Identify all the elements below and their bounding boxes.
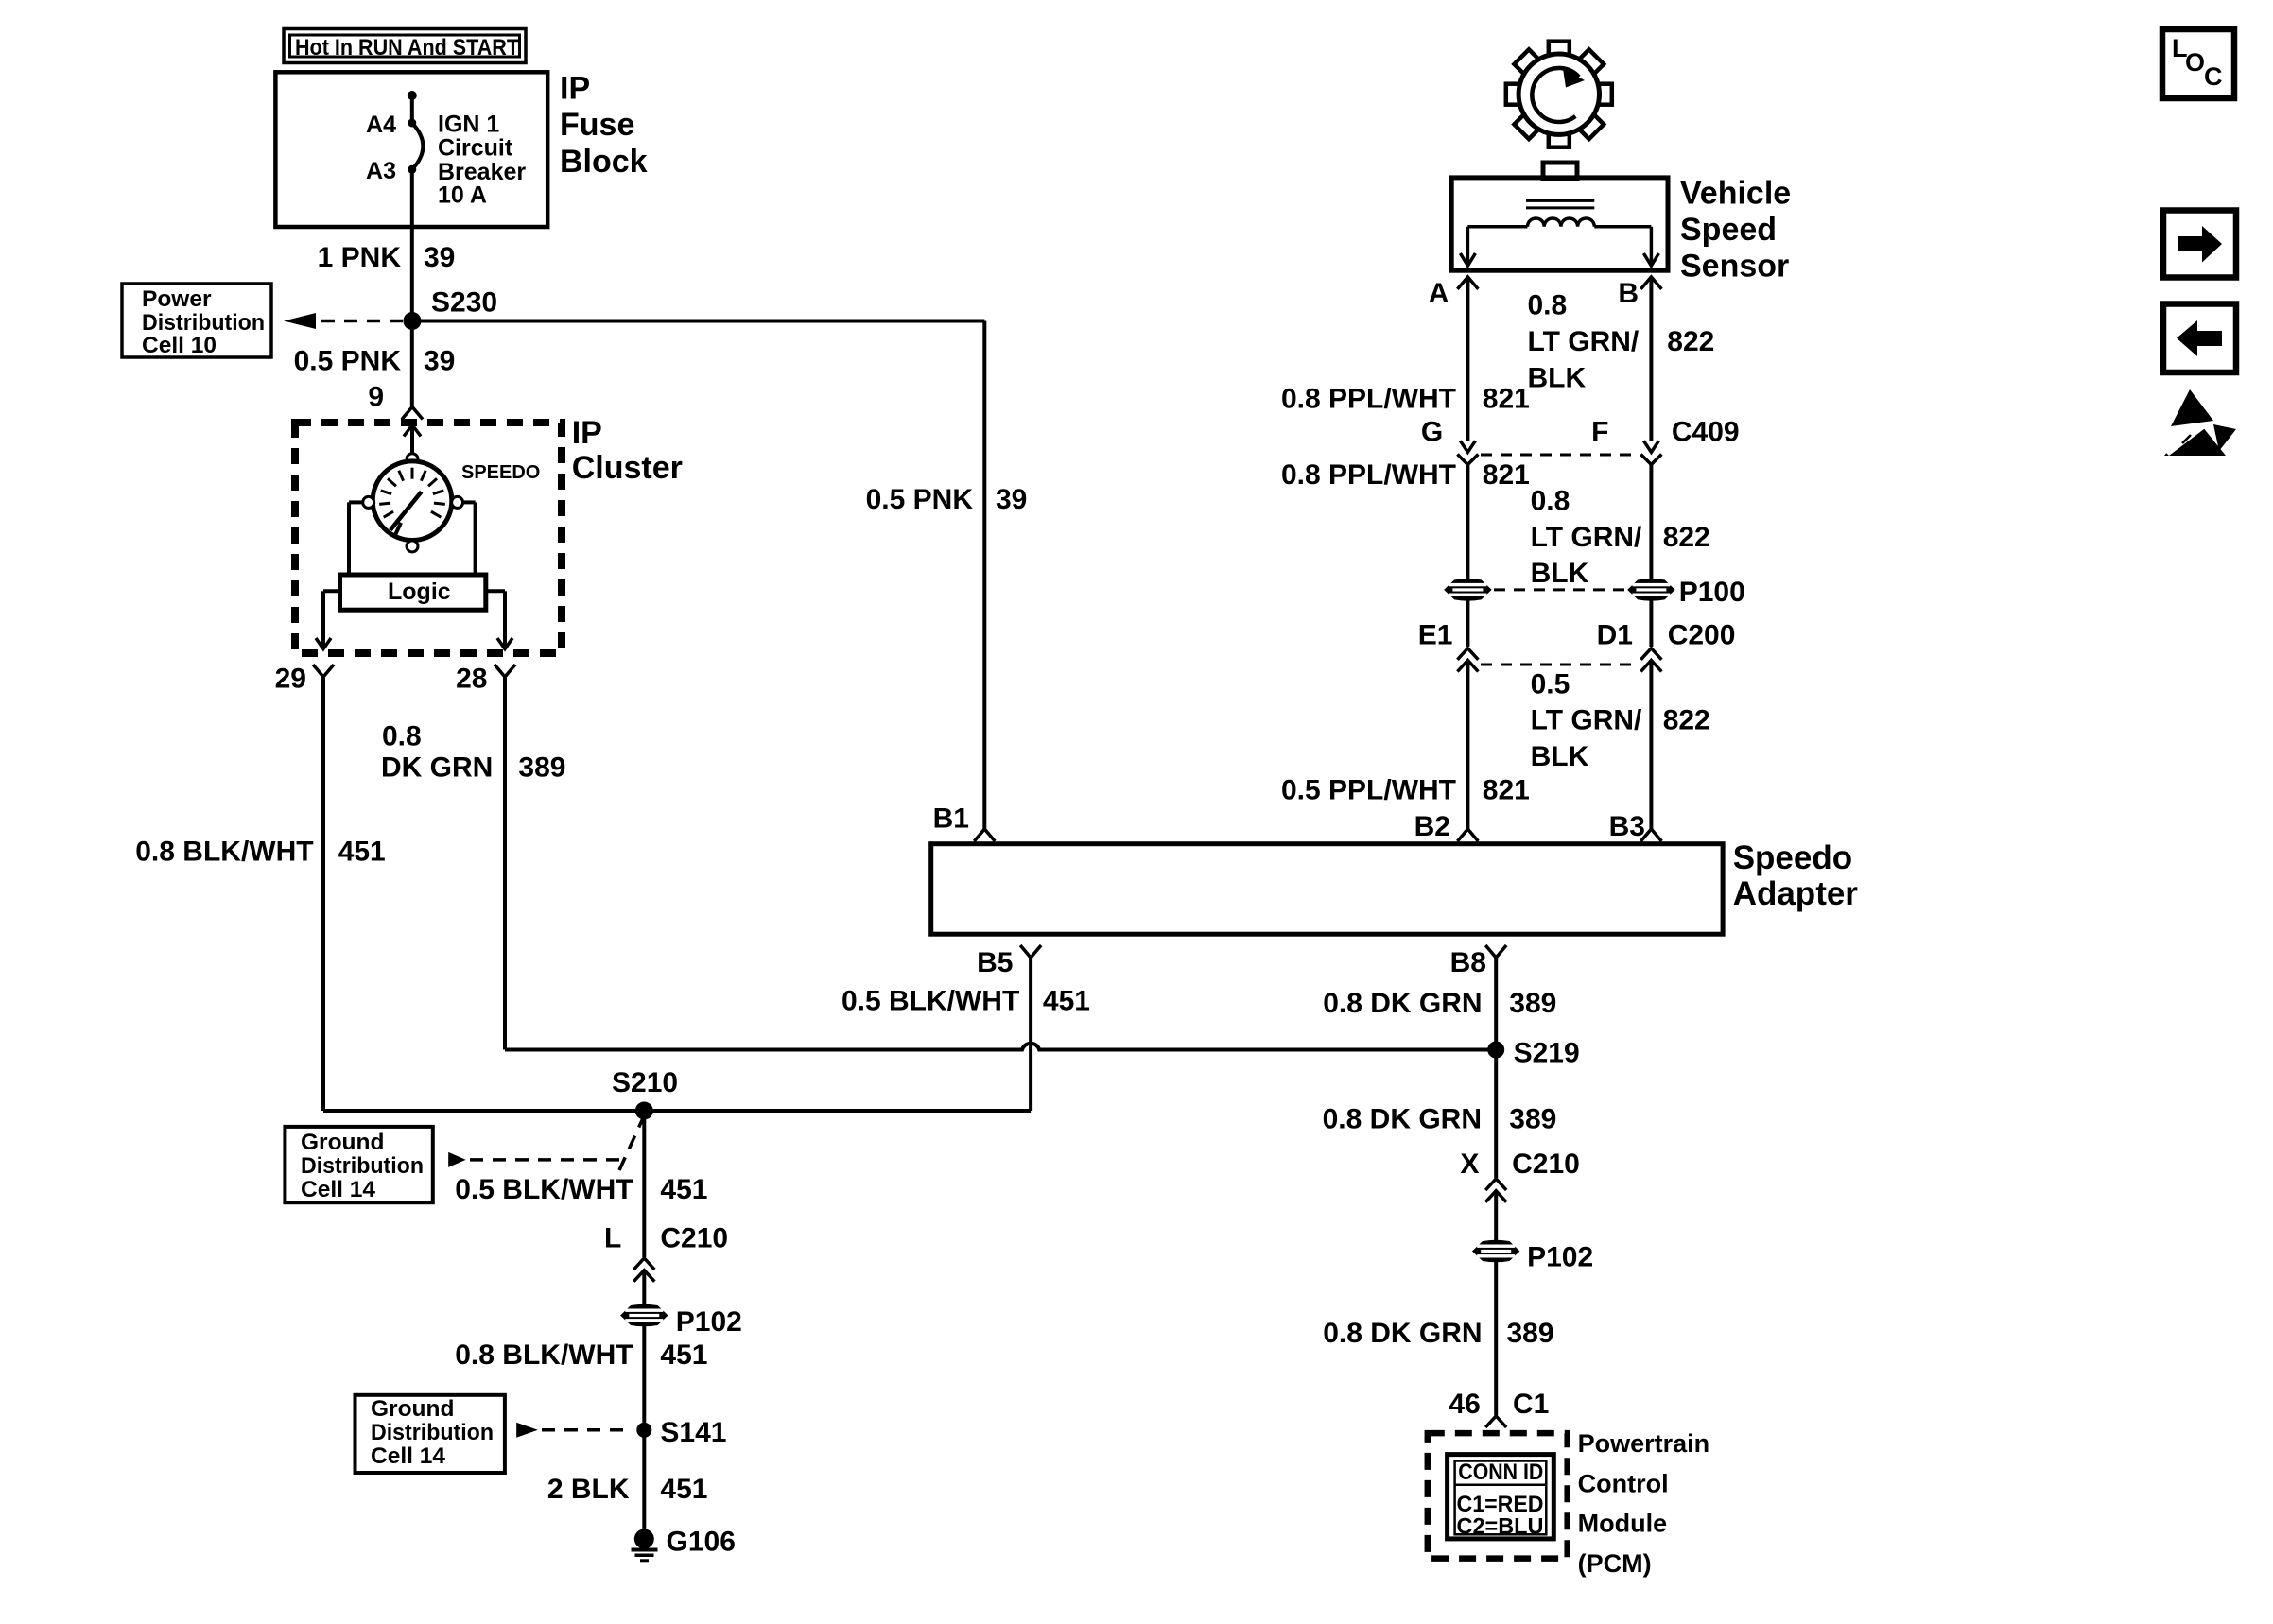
label box "Hot In RUN And START" bbox=[284, 29, 526, 63]
svg-text:Control: Control bbox=[1578, 1469, 1669, 1497]
pins 29 and 28 bbox=[313, 665, 334, 677]
svg-text:P102: P102 bbox=[1527, 1241, 1593, 1272]
svg-text:9: 9 bbox=[368, 382, 384, 413]
svg-text:Speed: Speed bbox=[1680, 212, 1777, 248]
Logic box bbox=[340, 575, 486, 610]
LOC icon bbox=[2162, 29, 2234, 98]
svg-text:0.8 DK GRN: 0.8 DK GRN bbox=[1323, 1318, 1482, 1349]
ESD warning icon bbox=[2160, 389, 2236, 456]
svg-text:BLK: BLK bbox=[1531, 741, 1589, 772]
svg-text:Distribution: Distribution bbox=[371, 1420, 494, 1445]
svg-text:B5: B5 bbox=[977, 947, 1013, 978]
gauge enclosure bbox=[349, 500, 363, 504]
svg-text:0.8 BLK/WHT: 0.8 BLK/WHT bbox=[135, 837, 313, 868]
svg-text:S141: S141 bbox=[660, 1417, 726, 1448]
svg-text:BLK: BLK bbox=[1531, 558, 1589, 589]
wire 0.8 DK GRN 389 from B8 to S219 bbox=[1494, 958, 1498, 1050]
svg-text:39: 39 bbox=[424, 242, 455, 273]
svg-text:(PCM): (PCM) bbox=[1578, 1549, 1652, 1578]
svg-text:Cell 14: Cell 14 bbox=[371, 1443, 445, 1469]
svg-text:O: O bbox=[2185, 48, 2205, 77]
svg-text:821: 821 bbox=[1483, 459, 1530, 491]
svg-text:10 A: 10 A bbox=[438, 182, 487, 209]
wire 0.5 PPL/WHT 821 (C200 to B2) bbox=[1466, 661, 1469, 830]
pin B8 bbox=[1485, 945, 1506, 958]
wire 0.5 BLK/WHT 451 from B5 to S210 bbox=[1029, 958, 1032, 1111]
svg-text:2 BLK: 2 BLK bbox=[547, 1474, 630, 1505]
svg-text:IP: IP bbox=[572, 415, 602, 451]
svg-text:0.5 PNK: 0.5 PNK bbox=[866, 484, 974, 515]
svg-text:L: L bbox=[604, 1222, 621, 1253]
svg-text:IP: IP bbox=[560, 71, 590, 107]
svg-text:SPEEDO: SPEEDO bbox=[461, 462, 540, 483]
svg-text:C210: C210 bbox=[1512, 1149, 1580, 1180]
left-arrow icon bbox=[2163, 304, 2236, 373]
splice S141 bbox=[636, 1423, 651, 1438]
cluster internal wires to pins 29 / 28 bbox=[323, 589, 340, 593]
wire 0.5 PNK 39 (S230 to speedo adapter B1) bbox=[412, 320, 984, 323]
svg-text:389: 389 bbox=[1509, 1104, 1556, 1135]
splice S210 bbox=[635, 1102, 653, 1120]
svg-text:Ground: Ground bbox=[301, 1130, 384, 1155]
svg-text:S230: S230 bbox=[431, 286, 497, 318]
svg-text:Adapter: Adapter bbox=[1733, 875, 1859, 912]
svg-text:0.8 DK GRN: 0.8 DK GRN bbox=[1323, 988, 1482, 1019]
pin B2 bbox=[1457, 829, 1478, 841]
svg-text:Fuse: Fuse bbox=[560, 107, 634, 143]
svg-text:A4: A4 bbox=[366, 112, 396, 138]
gauge side terminals bbox=[363, 496, 374, 508]
svg-text:F: F bbox=[1591, 416, 1608, 447]
VSS coil bbox=[1528, 218, 1595, 227]
svg-text:822: 822 bbox=[1667, 326, 1714, 357]
wire 0.8 BLK/WHT 451 (P102 to S141) bbox=[642, 1326, 646, 1540]
wire 1 PNK 39 from breaker to S230 bbox=[410, 169, 414, 406]
svg-text:A3: A3 bbox=[366, 158, 396, 184]
wire 0.5 LT GRN/BLK 822 (C200 to B3) bbox=[1649, 661, 1653, 830]
svg-text:0.5 BLK/WHT: 0.5 BLK/WHT bbox=[842, 986, 1019, 1017]
svg-text:BLK: BLK bbox=[1528, 363, 1587, 394]
svg-text:0.8 BLK/WHT: 0.8 BLK/WHT bbox=[455, 1339, 633, 1371]
wire 0.8 LT GRN/BLK 822 (C409 to P100) bbox=[1649, 465, 1653, 580]
splice S219 bbox=[1487, 1042, 1504, 1059]
svg-text:S219: S219 bbox=[1514, 1037, 1580, 1068]
dashed arrow S210 to Ground Distribution bbox=[448, 1152, 466, 1167]
svg-text:DK GRN: DK GRN bbox=[381, 752, 493, 784]
svg-text:28: 28 bbox=[456, 664, 487, 695]
circuit breaker IGN 1 10A bbox=[408, 91, 417, 100]
IP Cluster dashed box bbox=[295, 423, 562, 653]
svg-text:389: 389 bbox=[1509, 988, 1556, 1019]
Vehicle Speed Sensor box bbox=[1451, 178, 1668, 270]
svg-text:B2: B2 bbox=[1414, 811, 1450, 842]
svg-text:451: 451 bbox=[660, 1339, 707, 1371]
svg-text:G106: G106 bbox=[667, 1526, 736, 1557]
svg-text:P102: P102 bbox=[676, 1306, 742, 1338]
right-arrow icon bbox=[2163, 211, 2236, 278]
pins A and B bbox=[1457, 277, 1478, 289]
svg-text:39: 39 bbox=[424, 345, 455, 376]
svg-text:0.5 PNK: 0.5 PNK bbox=[294, 345, 402, 376]
svg-text:C1: C1 bbox=[1513, 1389, 1549, 1420]
gauge needle bbox=[390, 492, 422, 530]
svg-text:P100: P100 bbox=[1679, 577, 1745, 608]
svg-text:0.8: 0.8 bbox=[1531, 485, 1570, 516]
svg-text:0.8: 0.8 bbox=[382, 721, 422, 752]
svg-text:C2=BLU: C2=BLU bbox=[1457, 1514, 1544, 1540]
svg-text:B: B bbox=[1618, 278, 1639, 309]
svg-text:C200: C200 bbox=[1668, 620, 1736, 651]
svg-text:821: 821 bbox=[1483, 384, 1530, 415]
SPEEDO gauge bbox=[407, 454, 418, 465]
svg-text:1 PNK: 1 PNK bbox=[318, 242, 402, 273]
svg-text:C409: C409 bbox=[1672, 416, 1740, 447]
pin B1 bbox=[974, 829, 995, 841]
wire 0.8 BLK/WHT 451 from pin 29 bbox=[321, 677, 325, 1111]
svg-text:821: 821 bbox=[1483, 775, 1530, 806]
svg-text:0.5 BLK/WHT: 0.5 BLK/WHT bbox=[455, 1174, 633, 1205]
svg-text:E1: E1 bbox=[1418, 620, 1453, 651]
svg-text:0.5: 0.5 bbox=[1531, 668, 1570, 700]
svg-text:B8: B8 bbox=[1450, 947, 1486, 978]
svg-text:822: 822 bbox=[1663, 705, 1710, 736]
wire 0.8 DK GRN 389 (S219 to C210) bbox=[1494, 1050, 1498, 1179]
CONN ID table bbox=[1448, 1455, 1554, 1539]
svg-text:Block: Block bbox=[560, 144, 648, 180]
svg-text:0.8: 0.8 bbox=[1528, 290, 1568, 321]
svg-text:B3: B3 bbox=[1609, 811, 1645, 842]
svg-text:Power: Power bbox=[142, 286, 212, 312]
svg-text:S210: S210 bbox=[612, 1067, 678, 1098]
wire from pin 28 to S219 (hops over B5 wire) bbox=[505, 1044, 1496, 1050]
Speedo Adapter box bbox=[931, 844, 1723, 935]
wire 0.8 DK GRN 389 (P102 to PCM) bbox=[1494, 1262, 1498, 1416]
VSS gear icon bbox=[1506, 42, 1612, 147]
Powertrain Control Module dashed box bbox=[1428, 1433, 1568, 1559]
svg-text:LT GRN/: LT GRN/ bbox=[1528, 326, 1640, 357]
ground G106 bbox=[634, 1529, 654, 1549]
svg-text:C: C bbox=[2204, 62, 2223, 91]
svg-text:Distribution: Distribution bbox=[142, 310, 265, 336]
svg-text:389: 389 bbox=[1507, 1318, 1554, 1349]
svg-text:G: G bbox=[1421, 416, 1443, 447]
svg-text:Vehicle: Vehicle bbox=[1680, 176, 1791, 212]
VSS stem bbox=[1543, 163, 1577, 180]
svg-text:29: 29 bbox=[275, 664, 306, 695]
connector C200 bbox=[1466, 600, 1469, 647]
dashed arrow S141 to Ground Distribution bbox=[516, 1423, 538, 1438]
svg-text:0.8 DK GRN: 0.8 DK GRN bbox=[1323, 1104, 1482, 1135]
Ground Distribution Cell 14 box (lower) bbox=[356, 1395, 505, 1473]
svg-text:Powertrain: Powertrain bbox=[1578, 1429, 1710, 1458]
svg-text:451: 451 bbox=[660, 1174, 707, 1205]
svg-text:0.5 PPL/WHT: 0.5 PPL/WHT bbox=[1281, 775, 1456, 806]
svg-text:Ground: Ground bbox=[371, 1396, 454, 1422]
svg-text:451: 451 bbox=[338, 837, 386, 868]
splice S230 bbox=[404, 312, 422, 330]
svg-text:Module: Module bbox=[1578, 1510, 1668, 1538]
svg-text:Hot In RUN And START: Hot In RUN And START bbox=[295, 35, 519, 60]
svg-text:Circuit: Circuit bbox=[438, 134, 513, 161]
svg-text:Distribution: Distribution bbox=[301, 1153, 424, 1179]
svg-text:B1: B1 bbox=[933, 803, 969, 835]
svg-text:CONN ID: CONN ID bbox=[1458, 1460, 1543, 1485]
svg-text:46: 46 bbox=[1449, 1389, 1480, 1420]
svg-text:451: 451 bbox=[1043, 986, 1090, 1017]
pass-through P102 (left) bbox=[642, 1270, 646, 1305]
Ground Distribution Cell 14 box (upper) bbox=[285, 1127, 432, 1202]
wire 0.8 PPL/WHT 821 (C409 to P100) bbox=[1466, 465, 1469, 580]
svg-text:Logic: Logic bbox=[388, 579, 451, 605]
wire 0.8 PPL/WHT 821 (A to C409) bbox=[1466, 277, 1469, 441]
svg-text:0.8 PPL/WHT: 0.8 PPL/WHT bbox=[1281, 384, 1456, 415]
VSS core bbox=[1526, 199, 1594, 202]
VSS leads to pins A / B bbox=[1467, 225, 1527, 229]
svg-text:X: X bbox=[1460, 1149, 1479, 1180]
svg-text:C210: C210 bbox=[660, 1222, 728, 1253]
dashed arrow to Power Distribution bbox=[321, 320, 412, 323]
wire 0.5 BLK/WHT 451 (S210 to C210) bbox=[642, 1111, 646, 1257]
svg-text:Cell 10: Cell 10 bbox=[142, 333, 217, 358]
pin B3 bbox=[1640, 829, 1661, 841]
svg-text:Sensor: Sensor bbox=[1680, 249, 1789, 285]
svg-text:39: 39 bbox=[996, 484, 1027, 515]
Power Distribution Cell 10 box bbox=[122, 284, 271, 357]
svg-text:A: A bbox=[1429, 278, 1449, 309]
svg-text:LT GRN/: LT GRN/ bbox=[1531, 705, 1642, 736]
svg-text:D1: D1 bbox=[1597, 620, 1633, 651]
svg-text:451: 451 bbox=[660, 1474, 707, 1505]
pass-through P102 (right) bbox=[1494, 1191, 1498, 1241]
IP Fuse Block box bbox=[275, 72, 547, 227]
wire 0.8 DK GRN 389 from pin 28 bbox=[503, 677, 507, 1050]
svg-text:822: 822 bbox=[1663, 522, 1710, 553]
pin B5 bbox=[1020, 945, 1041, 958]
arrow into cluster pin 9 bbox=[410, 425, 414, 455]
pass-through P100 bbox=[1445, 579, 1491, 601]
svg-text:LT GRN/: LT GRN/ bbox=[1531, 522, 1642, 553]
svg-text:0.8 PPL/WHT: 0.8 PPL/WHT bbox=[1281, 459, 1456, 491]
svg-text:389: 389 bbox=[518, 752, 565, 784]
svg-text:Cell 14: Cell 14 bbox=[301, 1177, 375, 1202]
svg-text:Cluster: Cluster bbox=[572, 450, 683, 486]
wire 0.8 LT GRN/BLK 822 (B to C409) bbox=[1649, 277, 1653, 441]
svg-text:Speedo: Speedo bbox=[1733, 839, 1852, 876]
